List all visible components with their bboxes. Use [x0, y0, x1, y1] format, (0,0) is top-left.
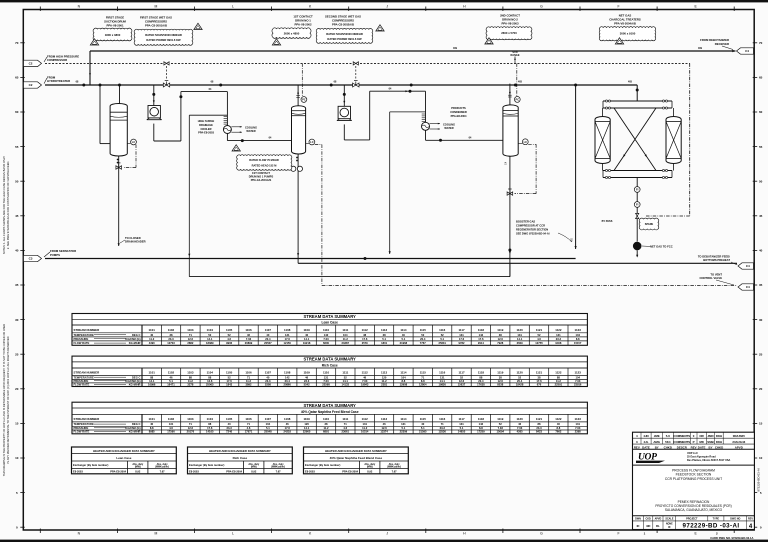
svg-text:20: 20	[759, 387, 763, 391]
svg-text:SALAMANCA, GUANAJUATO, MEXICO: SALAMANCA, GUANAJUATO, MEXICO	[665, 508, 723, 512]
svg-text:7.67: 7.67	[160, 469, 166, 473]
svg-text:25065: 25065	[206, 382, 214, 386]
svg-text:COMPRESSOR: COMPRESSOR	[47, 58, 67, 62]
svg-text:E8-2003: E8-2003	[305, 469, 315, 473]
svg-text:REV: REV	[634, 445, 640, 449]
svg-text:1116: 1116	[439, 328, 446, 332]
svg-text:2914: 2914	[478, 341, 484, 345]
svg-text:15157: 15157	[574, 341, 582, 345]
svg-text:1110: 1110	[323, 328, 330, 332]
svg-text:REV: REV	[748, 517, 753, 520]
svg-text:5.1: 5.1	[382, 337, 386, 341]
svg-text:4265: 4265	[517, 430, 523, 434]
svg-text:DWN: DWN	[635, 517, 641, 520]
svg-text:KG/CM2 (G): KG/CM2 (G)	[125, 337, 140, 341]
svg-text:FI: FI	[636, 188, 639, 192]
svg-text:C4: C4	[746, 285, 750, 289]
svg-text:5.1: 5.1	[460, 426, 464, 430]
svg-text:45: 45	[759, 214, 763, 218]
svg-text:21968: 21968	[400, 341, 408, 345]
svg-text:ID: ID	[668, 527, 671, 529]
svg-text:NOTES: 1. ALL FLOWS SHOWN ARE: NOTES: 1. ALL FLOWS SHOWN ARE FOR THE LE…	[2, 155, 6, 254]
svg-text:7.03: 7.03	[575, 426, 581, 430]
svg-text:PC: PC	[302, 98, 306, 102]
svg-text:12.6: 12.6	[498, 379, 504, 383]
svg-text:38: 38	[325, 422, 328, 426]
svg-text:DWG NO: DWG NO	[730, 517, 740, 520]
svg-text:7.03: 7.03	[498, 426, 504, 430]
svg-text:Lean Case: Lean Case	[116, 456, 131, 460]
svg-text:1117: 1117	[458, 417, 465, 421]
svg-text:88: 88	[557, 375, 560, 379]
svg-text:17638: 17638	[477, 382, 485, 386]
svg-text:(MW): (MW)	[367, 465, 373, 468]
svg-text:HIGH SURGE: HIGH SURGE	[198, 119, 215, 123]
svg-text:30: 30	[759, 318, 763, 322]
svg-text:5.1: 5.1	[402, 337, 406, 341]
svg-text:405: 405	[628, 81, 633, 84]
svg-text:1107: 1107	[265, 371, 272, 375]
svg-text:46: 46	[557, 422, 560, 426]
svg-text:2579: 2579	[362, 341, 368, 345]
svg-text:(MW): (MW)	[251, 465, 257, 468]
svg-text:88: 88	[189, 375, 192, 379]
svg-text:COOLER: COOLER	[200, 127, 211, 131]
svg-text:17971: 17971	[245, 430, 253, 434]
svg-text:J: J	[386, 532, 388, 536]
svg-text:88: 88	[208, 422, 211, 426]
svg-text:APVD: APVD	[655, 517, 662, 520]
svg-text:11.2: 11.2	[188, 379, 194, 383]
svg-text:1123: 1123	[575, 371, 582, 375]
svg-text:88: 88	[538, 422, 541, 426]
svg-text:F: F	[617, 532, 619, 536]
svg-text:11.2: 11.2	[382, 379, 388, 383]
svg-text:11.2: 11.2	[556, 379, 562, 383]
svg-text:38: 38	[170, 333, 173, 337]
svg-text:17.6: 17.6	[536, 379, 542, 383]
svg-text:COMPRESSOR AT CCR: COMPRESSOR AT CCR	[516, 223, 545, 227]
svg-text:2. SEE DWG 972229-BD-02-AI FOR: 2. SEE DWG 972229-BD-02-AI FOR CONTINUAT…	[6, 161, 10, 249]
svg-text:35: 35	[15, 283, 19, 287]
svg-text:12.6: 12.6	[381, 426, 387, 430]
svg-text:8.8: 8.8	[402, 379, 406, 383]
svg-text:409: 409	[453, 47, 458, 50]
svg-text:1843: 1843	[226, 382, 232, 386]
svg-text:7767: 7767	[420, 341, 426, 345]
svg-text:52: 52	[538, 333, 541, 337]
svg-text:3000 x 9100: 3000 x 9100	[620, 32, 636, 36]
svg-text:(MW): (MW)	[135, 465, 141, 468]
svg-text:1106: 1106	[245, 417, 252, 421]
svg-text:WATER: WATER	[246, 129, 255, 133]
svg-text:1101: 1101	[149, 328, 156, 332]
svg-text:1102: 1102	[168, 417, 175, 421]
svg-text:REGENERATOR SECTION: REGENERATOR SECTION	[516, 227, 548, 231]
svg-text:1106: 1106	[245, 328, 252, 332]
svg-text:KG-M/HR: KG-M/HR	[129, 430, 141, 434]
svg-text:4390: 4390	[149, 341, 155, 345]
svg-text:M: M	[154, 5, 157, 9]
svg-text:5.1: 5.1	[169, 379, 173, 383]
svg-text:Exchanger (By Item number): Exchanger (By Item number)	[189, 463, 224, 467]
svg-text:23.3: 23.3	[226, 426, 232, 430]
svg-text:SEE DWG 972229-BD-04-AI: SEE DWG 972229-BD-04-AI	[516, 231, 550, 235]
svg-text:104: 104	[343, 333, 348, 337]
svg-text:CONDENSER: CONDENSER	[450, 110, 467, 114]
svg-text:21595: 21595	[419, 430, 427, 434]
svg-text:RATED 52345/52000 NM3/HR: RATED 52345/52000 NM3/HR	[326, 32, 363, 36]
svg-text:71: 71	[189, 422, 192, 426]
svg-text:RANGE: RANGE	[510, 54, 519, 57]
svg-text:TO CLOSED: TO CLOSED	[125, 236, 141, 240]
svg-text:1123: 1123	[575, 328, 582, 332]
svg-text:52: 52	[499, 422, 502, 426]
svg-text:PPA-C8-2002A/B: PPA-C8-2002A/B	[332, 22, 354, 26]
svg-text:405: 405	[518, 81, 523, 84]
svg-text:24218: 24218	[283, 430, 291, 434]
svg-text:1113: 1113	[381, 328, 388, 332]
svg-text:1116: 1116	[439, 371, 446, 375]
svg-text:19218: 19218	[303, 341, 311, 345]
svg-text:8.92: 8.92	[251, 469, 257, 473]
svg-text:1106: 1106	[245, 371, 252, 375]
svg-text:11.2: 11.2	[343, 337, 349, 341]
svg-text:1117: 1117	[458, 328, 465, 332]
svg-text:1103: 1103	[187, 371, 194, 375]
svg-text:1107: 1107	[265, 417, 272, 421]
svg-text:2600 x 5700: 2600 x 5700	[501, 31, 517, 35]
svg-text:104: 104	[575, 333, 580, 337]
svg-text:52: 52	[460, 375, 463, 379]
svg-text:1111: 1111	[342, 371, 348, 375]
svg-text:DKH: DKH	[716, 434, 722, 438]
svg-text:142: 142	[324, 333, 329, 337]
svg-text:FI: FI	[636, 203, 639, 207]
svg-text:4.6: 4.6	[537, 337, 541, 341]
svg-text:17.6: 17.6	[362, 337, 368, 341]
svg-text:104: 104	[266, 422, 271, 426]
svg-text:KG/CM2 (G): KG/CM2 (G)	[125, 379, 140, 383]
svg-text:131: 131	[401, 422, 406, 426]
svg-text:4.6: 4.6	[227, 337, 231, 341]
svg-text:14.1: 14.1	[343, 379, 349, 383]
svg-text:88: 88	[208, 375, 211, 379]
svg-text:9782: 9782	[459, 341, 465, 345]
svg-text:20.4: 20.4	[285, 379, 291, 383]
svg-text:4.6: 4.6	[247, 426, 251, 430]
svg-text:PPA-E8-2004: PPA-E8-2004	[342, 469, 358, 473]
svg-text:1105: 1105	[226, 371, 233, 375]
svg-text:1103: 1103	[187, 328, 194, 332]
svg-text:6891: 6891	[323, 430, 329, 434]
svg-text:1120: 1120	[516, 328, 523, 332]
svg-text:5K4: 5K4	[665, 440, 671, 444]
svg-text:11.2: 11.2	[362, 426, 368, 430]
svg-text:38: 38	[499, 333, 502, 337]
svg-text:52: 52	[421, 333, 424, 337]
svg-text:PPA-E8-2003: PPA-E8-2003	[198, 131, 214, 135]
svg-text:SMB: SMB	[707, 440, 713, 444]
svg-text:7240: 7240	[226, 430, 232, 434]
svg-text:23.3: 23.3	[440, 426, 446, 430]
svg-text:Des Plaines, Illinois 60017-50: Des Plaines, Illinois 60017-5017 USA	[687, 459, 731, 462]
svg-text:3278: 3278	[187, 382, 193, 386]
svg-text:STREAM NUMBER: STREAM NUMBER	[74, 417, 101, 421]
svg-text:40: 40	[305, 333, 308, 337]
svg-text:46: 46	[170, 375, 173, 379]
svg-text:46: 46	[286, 422, 289, 426]
svg-text:23387: 23387	[342, 341, 350, 345]
svg-text:14.1: 14.1	[149, 379, 155, 383]
svg-text:LC: LC	[524, 140, 528, 144]
svg-text:20176: 20176	[187, 430, 195, 434]
svg-text:1115: 1115	[420, 328, 427, 332]
svg-text:E8-2003: E8-2003	[73, 469, 83, 473]
svg-text:SCALE: SCALE	[665, 517, 674, 520]
svg-text:PPA-V8-2003: PPA-V8-2003	[501, 21, 518, 25]
svg-text:(MMKcal/hr): (MMKcal/hr)	[155, 465, 169, 468]
svg-text:PPA-E8-2004: PPA-E8-2004	[451, 114, 467, 118]
svg-text:40: 40	[228, 422, 231, 426]
svg-text:12908: 12908	[400, 382, 408, 386]
svg-text:88: 88	[150, 375, 153, 379]
svg-text:HYDROTREATER: HYDROTREATER	[47, 79, 70, 83]
svg-text:23661: 23661	[342, 430, 350, 434]
svg-text:1113: 1113	[381, 417, 388, 421]
svg-text:23AUG43: 23AUG43	[732, 440, 745, 444]
svg-text:PPA-V8-2002: PPA-V8-2002	[294, 22, 311, 26]
svg-text:12.6: 12.6	[459, 379, 465, 383]
svg-text:TEMPERATURE: TEMPERATURE	[74, 333, 94, 337]
svg-text:40: 40	[402, 333, 405, 337]
svg-text:71: 71	[344, 422, 347, 426]
svg-text:5542: 5542	[304, 382, 310, 386]
svg-text:120: 120	[382, 375, 387, 379]
svg-text:22591: 22591	[555, 382, 563, 386]
svg-text:7.03: 7.03	[517, 426, 523, 430]
svg-text:DESCR: DESCR	[677, 445, 688, 449]
svg-text:131: 131	[324, 375, 329, 379]
svg-text:7.67: 7.67	[276, 469, 282, 473]
svg-text:40: 40	[421, 422, 424, 426]
svg-text:CONTROL VALVE: CONTROL VALVE	[699, 276, 722, 280]
svg-text:131: 131	[362, 422, 367, 426]
svg-text:FLOW RATE: FLOW RATE	[74, 430, 90, 434]
svg-text:1117: 1117	[458, 371, 465, 375]
svg-text:C4: C4	[745, 49, 749, 53]
svg-text:5-6: 5-6	[666, 434, 671, 438]
svg-text:1105: 1105	[226, 328, 233, 332]
svg-text:14.1: 14.1	[304, 426, 310, 430]
svg-text:(MMKcal/hr): (MMKcal/hr)	[271, 465, 285, 468]
svg-text:142: 142	[285, 375, 290, 379]
svg-text:CADD DWG NO. 972229-BD-03-1A: CADD DWG NO. 972229-BD-03-1A	[710, 536, 753, 540]
svg-text:17.6: 17.6	[285, 337, 291, 341]
svg-text:TEMPERATURE: TEMPERATURE	[74, 375, 94, 379]
svg-text:1111: 1111	[342, 328, 348, 332]
svg-text:PPA-E8-2004: PPA-E8-2004	[226, 469, 242, 473]
svg-text:60: 60	[15, 110, 19, 114]
svg-text:1114: 1114	[400, 328, 407, 332]
svg-text:40: 40	[15, 249, 19, 253]
svg-text:1122: 1122	[555, 417, 562, 421]
svg-text:STREAM DATA SUMMARY: STREAM DATA SUMMARY	[304, 357, 357, 362]
svg-text:1103: 1103	[187, 417, 194, 421]
svg-text:17.6: 17.6	[285, 426, 291, 430]
svg-text:12703: 12703	[167, 341, 175, 345]
svg-text:65: 65	[15, 76, 19, 80]
svg-text:HEATER AND EXCHANGER DATA SUMM: HEATER AND EXCHANGER DATA SUMMARY	[325, 449, 387, 453]
svg-text:5.1: 5.1	[402, 426, 406, 430]
svg-text:6600: 6600	[323, 341, 329, 345]
svg-text:7928: 7928	[497, 341, 503, 345]
svg-text:CHKD: CHKD	[664, 445, 672, 449]
svg-text:PPA-V8-2001: PPA-V8-2001	[106, 23, 123, 27]
svg-text:PPA-V8-2004A/B: PPA-V8-2004A/B	[614, 21, 636, 25]
svg-text:1122: 1122	[555, 328, 562, 332]
svg-text:Rich Case: Rich Case	[322, 364, 338, 368]
svg-text:DATE: DATE	[698, 445, 706, 449]
svg-text:38: 38	[538, 375, 541, 379]
svg-text:45: 45	[15, 214, 19, 218]
svg-text:1108: 1108	[284, 371, 291, 375]
svg-text:23.3: 23.3	[265, 379, 271, 383]
svg-text:22905: 22905	[303, 430, 311, 434]
svg-text:17.6: 17.6	[226, 379, 232, 383]
svg-text:8.92: 8.92	[367, 469, 373, 473]
svg-text:131: 131	[459, 422, 464, 426]
svg-text:COMMENTS: COMMENTS	[673, 434, 690, 438]
svg-text:2381: 2381	[381, 382, 387, 386]
svg-text:4.6: 4.6	[343, 426, 347, 430]
svg-text:142: 142	[479, 422, 484, 426]
svg-text:1101: 1101	[149, 371, 156, 375]
svg-text:PUMPS: PUMPS	[50, 253, 60, 257]
svg-text:38: 38	[363, 333, 366, 337]
svg-text:CKD: CKD	[646, 517, 651, 520]
svg-text:131: 131	[575, 422, 580, 426]
svg-text:PRODUCTS: PRODUCTS	[451, 106, 466, 110]
svg-text:8.8: 8.8	[421, 379, 425, 383]
svg-text:2882: 2882	[187, 341, 193, 345]
svg-text:RL: RL	[656, 524, 660, 528]
svg-text:CHKD: CHKD	[715, 445, 723, 449]
svg-text:25631: 25631	[438, 341, 446, 345]
svg-text:120: 120	[304, 422, 309, 426]
svg-text:131: 131	[285, 333, 290, 337]
svg-text:46: 46	[383, 422, 386, 426]
svg-text:WATER: WATER	[444, 126, 453, 130]
svg-text:RATED HEAD 152 M: RATED HEAD 152 M	[252, 163, 277, 167]
svg-text:1118: 1118	[478, 371, 485, 375]
svg-text:L: L	[232, 5, 234, 9]
svg-text:DRAINAGE: DRAINAGE	[199, 123, 213, 127]
svg-text:52: 52	[208, 333, 211, 337]
svg-text:BY: BY	[708, 445, 712, 449]
svg-text:DEG C: DEG C	[132, 422, 141, 426]
svg-text:1111: 1111	[342, 417, 348, 421]
svg-text:12.6: 12.6	[498, 337, 504, 341]
svg-text:17.6: 17.6	[207, 426, 213, 430]
svg-text:131: 131	[556, 333, 561, 337]
svg-text:18428: 18428	[516, 382, 524, 386]
svg-text:409: 409	[698, 47, 703, 50]
svg-text:1101: 1101	[149, 417, 156, 421]
svg-text:1108: 1108	[284, 417, 291, 421]
svg-text:PROJECT: PROJECT	[686, 517, 698, 520]
svg-text:RATED 52345/52000 NM3/HR: RATED 52345/52000 NM3/HR	[145, 33, 182, 37]
svg-text:1107: 1107	[265, 328, 272, 332]
svg-text:1801: 1801	[381, 341, 387, 345]
svg-text:52: 52	[344, 375, 347, 379]
svg-text:F: F	[617, 5, 619, 9]
svg-text:1114: 1114	[400, 371, 407, 375]
svg-text:972229-BD-03-AI: 972229-BD-03-AI	[757, 468, 761, 492]
svg-text:NONE: NONE	[666, 523, 673, 525]
svg-text:HEATER AND EXCHANGER DATA SUMM: HEATER AND EXCHANGER DATA SUMMARY	[209, 449, 271, 453]
svg-text:J: J	[386, 5, 388, 9]
svg-text:STREAM DATA SUMMARY: STREAM DATA SUMMARY	[304, 314, 357, 319]
svg-text:23.3: 23.3	[536, 426, 542, 430]
svg-text:17.6: 17.6	[478, 337, 484, 341]
svg-text:TO VENT: TO VENT	[710, 272, 722, 276]
svg-text:RATED POWER 8901.6 KW: RATED POWER 8901.6 KW	[146, 38, 181, 42]
svg-text:1121: 1121	[536, 417, 543, 421]
svg-text:71: 71	[247, 375, 250, 379]
svg-text:38: 38	[499, 375, 502, 379]
svg-text:DATE: DATE	[642, 445, 650, 449]
svg-text:4JL: 4JL	[644, 440, 649, 444]
svg-text:20.4: 20.4	[478, 379, 484, 383]
svg-text:8985: 8985	[149, 430, 155, 434]
svg-text:1800 x 3800: 1800 x 3800	[105, 33, 121, 37]
svg-text:COOLING: COOLING	[443, 122, 455, 126]
svg-text:10: 10	[15, 456, 19, 460]
svg-text:DEG C: DEG C	[132, 375, 141, 379]
svg-text:TEMPERATURE: TEMPERATURE	[74, 422, 94, 426]
svg-text:L: L	[232, 532, 234, 536]
svg-text:STREAM NUMBER: STREAM NUMBER	[74, 328, 101, 332]
svg-text:3892: 3892	[246, 382, 252, 386]
svg-text:REV: REV	[691, 445, 697, 449]
svg-text:1102: 1102	[168, 328, 175, 332]
svg-text:08JUN45: 08JUN45	[733, 434, 746, 438]
svg-text:30: 30	[15, 318, 19, 322]
svg-text:15: 15	[759, 422, 763, 426]
svg-text:9906: 9906	[226, 341, 232, 345]
svg-text:8.8: 8.8	[576, 337, 580, 341]
svg-text:5.1: 5.1	[266, 426, 270, 430]
svg-text:35: 35	[759, 283, 763, 287]
svg-text:9408: 9408	[555, 341, 561, 345]
svg-text:1104: 1104	[207, 417, 214, 421]
svg-text:RECEIVER: RECEIVER	[715, 42, 729, 46]
svg-text:TO DEBUTANIZER FEED/: TO DEBUTANIZER FEED/	[698, 254, 730, 258]
svg-text:25: 25	[15, 352, 19, 356]
svg-text:104: 104	[401, 375, 406, 379]
svg-text:12804: 12804	[419, 382, 427, 386]
svg-text:ID: ID	[637, 524, 640, 528]
svg-text:14655: 14655	[458, 430, 466, 434]
svg-text:IN ANY MANNER DETRIMENTAL TO T: IN ANY MANNER DETRIMENTAL TO THE INTERES…	[6, 336, 10, 463]
svg-text:131: 131	[517, 333, 522, 337]
svg-text:1102: 1102	[168, 371, 175, 375]
svg-text:12.6: 12.6	[207, 379, 213, 383]
svg-text:PRESSURE: PRESSURE	[74, 337, 89, 341]
svg-text:12150: 12150	[283, 341, 291, 345]
svg-text:10514: 10514	[361, 430, 369, 434]
